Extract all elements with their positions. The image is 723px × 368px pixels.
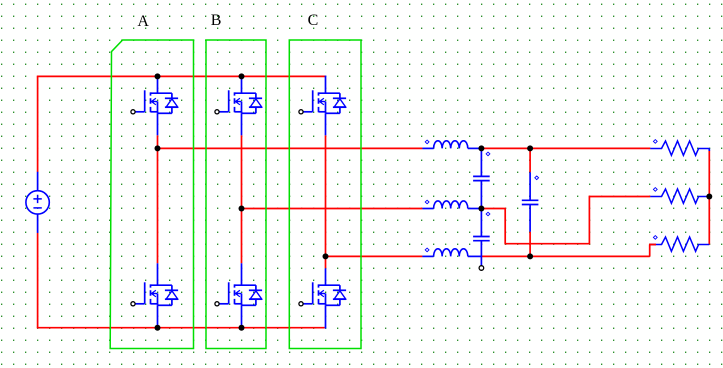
wire: leg C upper source to mid <box>325 135 327 256</box>
wire: right bus blue corner <box>708 149 710 152</box>
mosfet Q2 lower A <box>131 282 178 306</box>
wire: left DC bus vertical bottom <box>37 233 39 328</box>
wire: phase B mid rail <box>242 208 423 210</box>
inductor LB <box>422 200 481 208</box>
wire: leg B lower source lead <box>241 305 243 327</box>
junction top bus at A <box>155 73 161 79</box>
wire: phase A mid rail <box>158 147 423 149</box>
svg-text:C: C <box>308 12 319 29</box>
wire: leg B upper drain <box>241 76 243 93</box>
wire: leg B upper source to mid <box>241 135 243 208</box>
junction A mid <box>155 145 161 151</box>
capacitor C3 <box>522 176 539 205</box>
phase leg box A <box>110 40 193 349</box>
wire: leg A upper drain <box>157 76 159 93</box>
wire: bottom DC bus <box>37 327 325 329</box>
voltage source V1 <box>26 172 49 233</box>
junction B mid <box>239 206 245 212</box>
wire: leg C lower drain lead <box>325 268 327 285</box>
wire: leg A lower source lead <box>157 305 159 327</box>
mosfet Q6 lower C <box>299 282 346 306</box>
resistor R2 <box>650 188 709 204</box>
junction top bus at B <box>239 73 245 79</box>
mosfet Q1 upper A <box>131 90 178 114</box>
wire: leg B lower drain lead <box>241 263 243 285</box>
junction bottom bus at B <box>239 325 245 331</box>
terminal cap2 bottom <box>479 266 484 271</box>
wire: leg C upper source lead <box>325 113 327 135</box>
wire: leg A mid to lower drain <box>157 148 159 263</box>
junction node LB cap2 <box>478 206 484 212</box>
svg-text:B: B <box>211 12 222 29</box>
wire: cap C2 top lead <box>480 209 482 237</box>
wire: leg C upper drain <box>325 76 327 94</box>
svg-text:A: A <box>137 13 149 30</box>
mosfet Q5 upper C <box>299 90 346 114</box>
wire: cap3 bottom red lead <box>529 232 531 257</box>
wire: phase C mid rail <box>326 255 423 257</box>
wire: right bus vertical <box>708 151 710 245</box>
capacitor C1 <box>473 152 490 181</box>
junction node LA cap1 <box>478 145 484 151</box>
wire: cap3 top red lead <box>529 148 531 172</box>
mosfet Q4 lower B <box>215 282 262 306</box>
wire: leg C lower source lead <box>325 305 327 328</box>
wire: cap C1 bottom lead <box>480 181 482 209</box>
inductor LA <box>422 140 481 148</box>
wire: R3 left red overlay <box>649 244 656 246</box>
wire: leg C mid to lower drain <box>325 256 327 268</box>
wire: leg A upper source lead <box>157 113 159 135</box>
junction node cap3 top <box>527 145 533 151</box>
wire: cap C3 top lead <box>529 172 531 200</box>
wire: leg A lower drain lead <box>157 263 159 285</box>
inductor LC <box>422 248 481 256</box>
wire: cap C3 bottom lead <box>529 205 531 232</box>
junction node cap3 bottom <box>527 253 533 259</box>
phase leg box C <box>289 40 361 349</box>
wire: leg B upper source lead <box>241 113 243 135</box>
resistor R3 <box>650 236 709 252</box>
wire: top DC bus <box>37 75 326 77</box>
wire: cap C2 bottom lead <box>480 241 482 266</box>
junction right bus at R2 <box>706 194 712 200</box>
resistor R1 <box>650 140 709 156</box>
wire: leg A upper source to mid <box>157 135 159 148</box>
capacitor C2 <box>473 212 490 241</box>
mosfet Q3 upper B <box>215 90 262 114</box>
phase leg box B <box>206 40 266 349</box>
junction C mid <box>323 253 329 259</box>
junction bottom bus at A <box>155 325 161 331</box>
wire: cap C1 top lead <box>480 148 482 176</box>
wire: node LA to R1 <box>481 147 650 149</box>
wire: leg B mid to lower drain <box>241 209 243 264</box>
wire: node C rail to R3 <box>481 245 656 257</box>
wire: left DC bus vertical top <box>37 76 39 172</box>
wire: node B to R2 <box>481 197 650 244</box>
